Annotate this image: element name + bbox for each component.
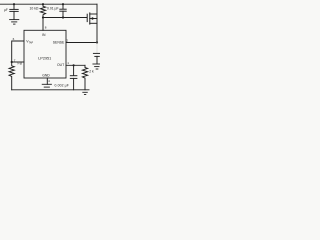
wire bottom return bbox=[12, 89, 89, 91]
resistor R_fb bbox=[9, 62, 14, 90]
wire base node to transistor gate bbox=[43, 17, 87, 19]
svg-text:0.002 µF: 0.002 µF bbox=[55, 84, 69, 88]
ground (bottom right) bbox=[83, 92, 88, 94]
node SENSE-right junction bbox=[96, 41, 98, 43]
node VIN-R1 junction bbox=[42, 3, 44, 5]
svg-text:LP2951: LP2951 bbox=[38, 57, 51, 61]
ground (input cap) bbox=[10, 20, 19, 25]
svg-text:µF: µF bbox=[4, 8, 8, 12]
node base wire junction at C1 bbox=[62, 16, 64, 18]
transistor Q1 bbox=[87, 13, 97, 24]
ground (IC GND pin) bbox=[42, 84, 51, 87]
svg-text:1: 1 bbox=[67, 61, 69, 65]
wire pin8 IN bbox=[42, 18, 44, 31]
capacitor C_out right edge bbox=[93, 43, 100, 64]
svg-text:10 kΩ: 10 kΩ bbox=[30, 7, 39, 11]
resistor R2 2k bbox=[82, 65, 87, 90]
svg-text:8: 8 bbox=[45, 26, 47, 30]
wire pin6 VTAP bbox=[12, 41, 24, 62]
svg-text:VTAP: VTAP bbox=[26, 39, 33, 44]
node base wire junction at R1 bbox=[42, 16, 44, 18]
wire pin4 GND bbox=[46, 78, 48, 84]
node VIN-Cin junction bbox=[13, 3, 15, 5]
svg-text:IN: IN bbox=[42, 33, 46, 37]
svg-text:4: 4 bbox=[48, 79, 50, 83]
ground (output cap) bbox=[93, 64, 100, 69]
wire OUT pin1 bbox=[66, 64, 85, 66]
svg-text:OUT: OUT bbox=[57, 63, 64, 67]
svg-text:FB: FB bbox=[18, 61, 23, 65]
node FB junction bbox=[11, 61, 13, 63]
capacitor C2 0.002uF bbox=[70, 65, 77, 90]
svg-text:SENSE: SENSE bbox=[53, 41, 65, 45]
node VIN-C1 junction bbox=[62, 3, 64, 5]
wire pin7 FB bbox=[12, 61, 24, 63]
node OUT-C2 junction bbox=[73, 64, 75, 66]
resistor R1 10 kOhm bbox=[40, 4, 45, 17]
op-amp U1 LP2951 body bbox=[24, 30, 66, 78]
wire VIN top rail bbox=[0, 3, 97, 5]
svg-text:GND: GND bbox=[42, 73, 50, 77]
svg-text:2: 2 bbox=[66, 39, 68, 43]
capacitor C_in bbox=[10, 4, 18, 19]
wire right vertical from rail to SENSE node bbox=[96, 4, 98, 42]
svg-text:6: 6 bbox=[13, 37, 15, 41]
wire SENSE pin2 bbox=[66, 42, 97, 44]
svg-text:2 k: 2 k bbox=[89, 69, 94, 73]
svg-text:0.01 µF: 0.01 µF bbox=[47, 7, 59, 11]
capacitor C1 0.01uF bbox=[60, 4, 66, 17]
